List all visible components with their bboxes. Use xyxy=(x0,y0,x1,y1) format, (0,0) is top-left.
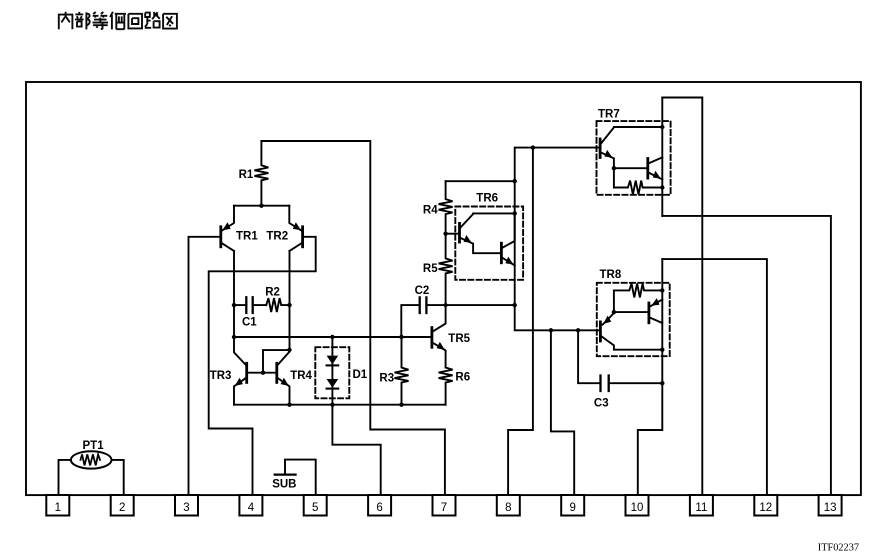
junction dot C2 / R5 / TR5 collector xyxy=(444,303,448,307)
pin 8 xyxy=(497,495,520,516)
svg-text:10: 10 xyxy=(631,502,644,514)
svg-text:SUB: SUB xyxy=(272,479,296,491)
junction dot TR6 base node xyxy=(443,232,447,236)
svg-text:R1: R1 xyxy=(239,169,254,181)
junction dot bias line left xyxy=(232,335,236,339)
wire TR2 collector down to R2/TR4 xyxy=(289,251,291,350)
svg-text:R3: R3 xyxy=(379,373,394,385)
pin 2 xyxy=(111,495,134,516)
svg-text:TR5: TR5 xyxy=(448,333,470,345)
junction dot TR7 collector line xyxy=(660,125,664,129)
wire emitter rail TR1-TR2 xyxy=(234,205,289,207)
capacitor C2 xyxy=(401,297,514,337)
wire TR4 collector-base tie loop xyxy=(263,350,290,373)
junction dot C2 right xyxy=(513,303,517,307)
wire TR7 emitter out to pin 13 xyxy=(662,216,831,495)
junction dot TR8 collectors bottom xyxy=(660,348,664,352)
junction dot R4 feed right xyxy=(513,179,517,183)
svg-text:PT1: PT1 xyxy=(83,440,105,452)
junction dot R2 right xyxy=(287,303,291,307)
wire R4 feed from TR7 base line xyxy=(446,180,515,182)
junction dot D1 on rail xyxy=(330,403,334,407)
svg-text:TR4: TR4 xyxy=(290,370,312,382)
svg-text:D1: D1 xyxy=(353,369,368,381)
svg-text:C3: C3 xyxy=(594,397,609,409)
substrate SUB symbol xyxy=(275,460,316,495)
wire TR2 base cross-couple to pin 4 xyxy=(209,237,316,495)
wire D1 branch down to pin 6 xyxy=(332,337,380,495)
resistor R5 xyxy=(439,234,453,305)
svg-text:8: 8 xyxy=(505,502,511,514)
svg-text:TR8: TR8 xyxy=(600,269,622,281)
wire bias line y337 (TR1 coll / D1 / R3 / TR5 base) xyxy=(234,336,431,338)
svg-text:3: 3 xyxy=(183,502,189,514)
svg-text:11: 11 xyxy=(695,502,707,514)
pin 1 xyxy=(46,495,69,516)
pin 7 xyxy=(433,495,456,516)
junction dot TR8 base line / pin9 branch xyxy=(549,328,553,332)
diode D1 (two series diodes in dashed box) xyxy=(315,347,349,398)
wire emitter ground rail y405 xyxy=(234,404,446,406)
pin 5 xyxy=(304,495,327,516)
wire supply: R1 top rail over to pin 7 xyxy=(261,141,445,495)
transistor TR4 (NPN current mirror right, diode connected) xyxy=(277,350,290,405)
frame border of IC xyxy=(26,82,861,495)
junction dot C2 left / TR5 base xyxy=(399,335,403,339)
junction dot TR8 base line / C3 branch xyxy=(576,328,580,332)
svg-text:13: 13 xyxy=(824,502,837,514)
wire TR8 base line xyxy=(515,305,599,330)
resistor R2 xyxy=(266,298,289,312)
wire to pin 8 xyxy=(508,148,533,495)
wire TR8 top to pin 12 xyxy=(662,259,767,495)
junction dot TR7 base line / pin8 branch xyxy=(531,145,535,149)
svg-text:6: 6 xyxy=(376,502,382,514)
title text 内部等価回路図 (hand-drawn kanji strokes) xyxy=(59,12,177,30)
svg-text:9: 9 xyxy=(569,502,575,514)
resistor R6 xyxy=(439,368,453,405)
transistor TR8 (PNP darlington with resistor, dashed box) xyxy=(597,283,670,356)
resistor R4 xyxy=(439,181,453,234)
junction dot TR4 emitter on rail xyxy=(287,403,291,407)
junction dot TR6 collectors xyxy=(513,211,517,215)
transistor TR3 (NPN current mirror left) xyxy=(234,337,247,405)
resistor R3 xyxy=(395,337,409,405)
wire TR1 collector down to C1/bias line xyxy=(233,251,235,337)
wire TR7 base line from TR5 collector node xyxy=(515,148,599,306)
wire to pin 9 xyxy=(551,330,574,495)
svg-text:TR7: TR7 xyxy=(598,108,620,120)
svg-text:C1: C1 xyxy=(242,317,257,329)
wire TR7 right collector/emitter vertical xyxy=(661,98,663,216)
junction dot base tie xyxy=(261,371,265,375)
pin 13 xyxy=(819,495,842,516)
junction dot C1 left xyxy=(232,303,236,307)
transistor TR5 (NPN gain stage) xyxy=(432,305,446,367)
svg-text:TR2: TR2 xyxy=(266,230,288,242)
svg-text:R5: R5 xyxy=(423,263,438,275)
pin 9 xyxy=(561,495,584,516)
transistor TR7 (NPN darlington with resistor, dashed box) xyxy=(597,121,671,195)
svg-text:4: 4 xyxy=(248,502,255,514)
svg-text:C2: C2 xyxy=(415,285,430,297)
junction dot TR7 resistor right xyxy=(660,185,664,189)
svg-text:R2: R2 xyxy=(265,287,280,299)
pin 12 xyxy=(754,495,777,516)
pin 4 xyxy=(239,495,262,516)
svg-text:TR3: TR3 xyxy=(210,370,232,382)
svg-text:1: 1 xyxy=(55,502,61,514)
pin 3 xyxy=(175,495,198,516)
junction dot TR4 collector xyxy=(287,348,291,352)
pin 10 xyxy=(626,495,649,516)
junction dot TR7 emitter1/resistor node xyxy=(612,166,616,170)
junction dot TR8 resistor left / base node xyxy=(612,310,616,314)
capacitor C1 xyxy=(234,297,266,313)
junction dot D1 top xyxy=(330,335,334,339)
junction dot R1 bottom / emitter rail xyxy=(259,204,263,208)
pin 11 xyxy=(690,495,713,516)
junction dot C3 right xyxy=(660,381,664,385)
transistor TR2 (PNP right of input pair) xyxy=(289,206,302,251)
svg-text:R6: R6 xyxy=(455,372,470,384)
svg-text:12: 12 xyxy=(759,502,772,514)
transistor TR6 (NPN darlington in dashed box) xyxy=(446,207,523,280)
wire TR8 main vertical down to pin 10 xyxy=(638,259,663,495)
junction dot R3 bottom on rail xyxy=(399,403,403,407)
capacitor C3 xyxy=(578,330,662,391)
svg-text:TR6: TR6 xyxy=(476,192,498,204)
transistor TR1 (PNP left of input pair) xyxy=(221,206,234,251)
resistor R1 xyxy=(254,141,268,206)
phototransistor PT1 xyxy=(59,451,124,495)
svg-text:ITF02237: ITF02237 xyxy=(818,543,859,554)
svg-text:5: 5 xyxy=(312,502,318,514)
svg-text:7: 7 xyxy=(441,502,447,514)
wire TR3/TR4 base tie xyxy=(248,372,275,374)
svg-text:TR1: TR1 xyxy=(236,230,258,242)
junction dot TR8 resistor right xyxy=(660,288,664,292)
wire TR1 base to pin 3 xyxy=(189,237,220,495)
wire TR7 collector to pin 11 xyxy=(662,98,702,496)
svg-text:2: 2 xyxy=(119,502,125,514)
junction dot R3 top xyxy=(399,335,403,339)
svg-text:R4: R4 xyxy=(423,204,438,216)
pin 6 xyxy=(368,495,391,516)
